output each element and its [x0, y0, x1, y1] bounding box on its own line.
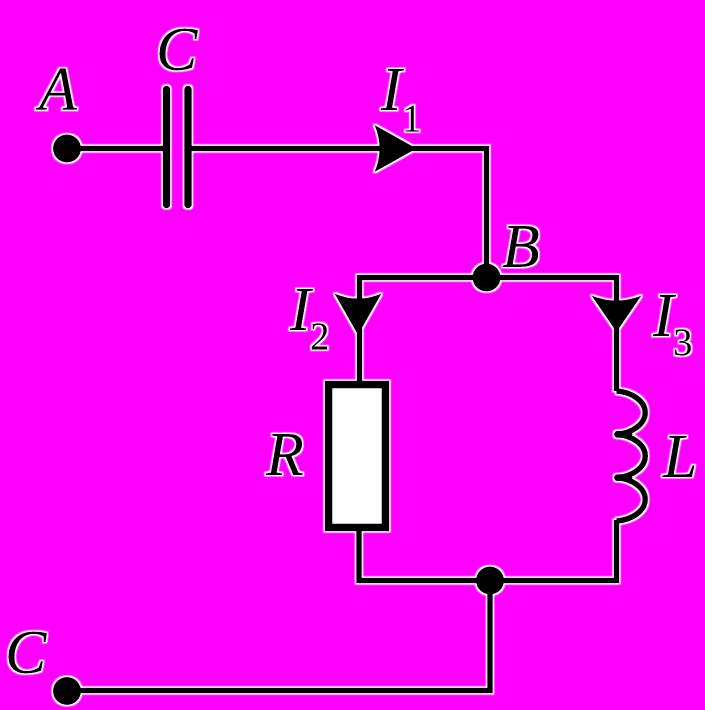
- svg-text:L: L: [662, 423, 697, 491]
- resistor R (white rectangle): [329, 385, 386, 528]
- wire: horizontal branch through node B (left corner to right corner): [360, 275, 617, 281]
- capacitor C (two plates): [167, 90, 189, 205]
- arrow I3 (pointing down into inductor): [592, 296, 642, 333]
- wire: right branch vertical (node B down to inductor): [614, 275, 620, 391]
- label I1: [380, 56, 422, 140]
- wire: inductor bottom to bottom rail: [614, 520, 620, 583]
- terminal A: [53, 135, 81, 163]
- arrow I1 (current arrow on top wire, pointing right): [375, 125, 417, 172]
- label I3: [652, 282, 693, 364]
- node B: [473, 264, 501, 292]
- wire: left branch vertical (node B down to resistor): [357, 275, 363, 382]
- svg-text:C: C: [156, 16, 198, 84]
- svg-text:2: 2: [310, 315, 330, 358]
- svg-text:1: 1: [402, 97, 422, 140]
- svg-text:C: C: [5, 619, 47, 687]
- wire: resistor bottom to bottom rail: [356, 529, 362, 583]
- inductor L (three half-ellipse coil bumps): [617, 391, 646, 521]
- wire: junction down and left to terminal C: [67, 581, 490, 691]
- wire: terminal A to capacitor left plate: [67, 146, 164, 152]
- svg-text:3: 3: [673, 321, 693, 364]
- label I2: [289, 276, 330, 358]
- svg-text:A: A: [35, 56, 78, 124]
- wire: capacitor right plate to top-right corner and down to node B: [188, 149, 487, 279]
- arrow I2 (pointing down into resistor): [335, 294, 382, 336]
- node (bottom junction): [476, 567, 504, 595]
- terminal C: [53, 677, 81, 705]
- svg-text:R: R: [265, 421, 304, 489]
- svg-text:B: B: [502, 213, 540, 281]
- wire: bottom rail between branches: [359, 578, 617, 584]
